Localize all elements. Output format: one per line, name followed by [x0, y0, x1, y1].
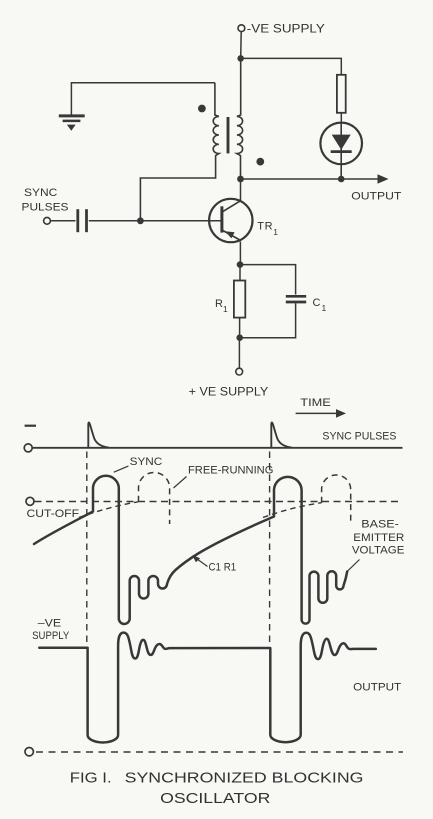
- dashed free-running continuation 1: [79, 502, 138, 518]
- wire emitter junction to C1: [240, 265, 296, 295]
- wire terminal to junction: [240, 32, 243, 59]
- base-emitter voltage waveform: [34, 476, 347, 624]
- sync pulse spike 2: [271, 422, 291, 447]
- wire terminal to capacitor: [50, 220, 75, 222]
- transformer T1 primary (left winding): [140, 83, 219, 218]
- node collector junction dot: [237, 176, 244, 183]
- svg-text:SYNC: SYNC: [130, 456, 163, 468]
- wire to +VE terminal: [238, 338, 240, 369]
- svg-text:OUTPUT: OUTPUT: [353, 682, 401, 694]
- svg-text:-VE SUPPLY: -VE SUPPLY: [247, 22, 325, 36]
- node base junction dot: [137, 217, 144, 224]
- svg-text:PULSES: PULSES: [22, 202, 69, 214]
- svg-text:OUTPUT: OUTPUT: [351, 190, 401, 202]
- wire capacitor to base: [89, 220, 221, 222]
- svg-text:TR: TR: [257, 221, 273, 233]
- svg-text:TIME: TIME: [300, 397, 331, 409]
- transformer phasing dot bottom-right: [256, 158, 264, 166]
- svg-text:FIG I.SYNCHRONIZED BLOCKING: FIG I.SYNCHRONIZED BLOCKING: [70, 770, 364, 786]
- svg-text:SUPPLY: SUPPLY: [32, 630, 70, 642]
- ground: [71, 83, 215, 115]
- transformer core: [227, 117, 230, 153]
- output waveform: [39, 633, 376, 743]
- node bottom junction dot: [236, 334, 243, 341]
- dashed free-running hump 1: [139, 472, 170, 524]
- svg-text:1: 1: [322, 303, 327, 313]
- sync pulse spike 1: [88, 422, 108, 447]
- node cut-off terminal: [26, 497, 34, 505]
- dashed time marker 2: [269, 452, 271, 644]
- wire emitter down: [239, 242, 241, 265]
- svg-text:OSCILLATOR: OSCILLATOR: [160, 791, 270, 807]
- svg-text:1: 1: [273, 227, 278, 237]
- svg-text:1: 1: [223, 304, 228, 314]
- wire resistor to diode: [340, 113, 342, 122]
- resistor (output load): [337, 75, 346, 113]
- svg-text:SYNC PULSES: SYNC PULSES: [322, 431, 396, 443]
- wire junction to collector: [240, 179, 242, 201]
- transformer phasing dot top-left: [198, 105, 206, 113]
- sync level tick: [25, 425, 36, 427]
- dashed free-running continuation 2: [263, 503, 322, 518]
- wire to R1: [239, 265, 241, 281]
- capacitor (sync coupling): [76, 209, 79, 232]
- svg-text:C: C: [313, 297, 321, 309]
- svg-text:CUT-OFF: CUT-OFF: [27, 508, 80, 520]
- node output junction dot: [338, 176, 345, 183]
- svg-text:C1 R1: C1 R1: [209, 562, 237, 574]
- svg-text:FREE-RUNNING: FREE-RUNNING: [188, 465, 273, 477]
- wire C1 bottom: [240, 303, 296, 337]
- node -VE supply terminal: [238, 25, 245, 32]
- wire diode through to output line: [340, 122, 342, 179]
- node sync input terminal: [44, 217, 51, 224]
- svg-text:EMITTER: EMITTER: [353, 532, 404, 544]
- svg-text:+ VE SUPPLY: + VE SUPPLY: [189, 385, 269, 399]
- capacitor C1: [286, 295, 306, 298]
- transformer T1 secondary (right winding): [237, 58, 243, 179]
- node emitter junction dot: [237, 261, 244, 268]
- node sync zero terminal: [24, 444, 32, 452]
- node bottom zero terminal: [25, 748, 33, 756]
- diode D1 (circled): [320, 123, 362, 165]
- svg-text:VOLTAGE: VOLTAGE: [352, 545, 405, 557]
- cut-off dashed line: [35, 501, 403, 503]
- wire output line with arrow: [243, 178, 379, 180]
- svg-text:R: R: [215, 298, 223, 310]
- dashed time marker 1: [86, 452, 88, 644]
- bottom dashed zero line: [36, 751, 403, 753]
- wire junction to resistor top: [241, 58, 342, 75]
- resistor R1: [234, 281, 245, 318]
- svg-text:–VE: –VE: [38, 617, 61, 629]
- transistor TR1: [209, 199, 252, 242]
- time arrow: [296, 412, 338, 414]
- wire R1 to bottom junction: [239, 318, 241, 338]
- svg-text:BASE-: BASE-: [361, 519, 399, 531]
- dashed free-running hump 2: [322, 475, 351, 524]
- node +VE supply terminal: [236, 368, 243, 375]
- sync pulses baseline: [32, 447, 402, 449]
- svg-text:SYNC: SYNC: [24, 187, 57, 199]
- node junction dot top: [237, 55, 244, 62]
